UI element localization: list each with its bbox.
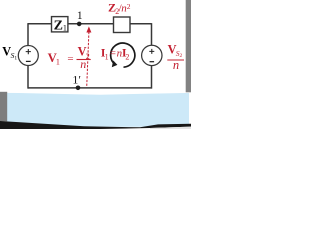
node 1 (dot) bbox=[77, 22, 82, 27]
blue panel band (bottom of figure) bbox=[7, 93, 190, 127]
svg-text:1: 1 bbox=[63, 22, 67, 32]
light sliver bottom-right bbox=[150, 127, 191, 129]
svg-text:n: n bbox=[173, 58, 179, 72]
fraction bar VS2/n bbox=[167, 59, 184, 61]
svg-text:=: = bbox=[110, 47, 116, 59]
left gray page-edge square bbox=[0, 92, 7, 122]
svg-text:Z: Z bbox=[54, 18, 63, 33]
voltage arrow V1 (red, dashed, head up) bbox=[87, 32, 89, 88]
svg-text:1: 1 bbox=[14, 55, 17, 61]
svg-text:1′: 1′ bbox=[72, 72, 81, 86]
impedance Z1 (box) bbox=[52, 17, 68, 32]
svg-text:1: 1 bbox=[77, 10, 83, 22]
impedance Z2/n^2 (box) bbox=[114, 17, 131, 33]
source VS2/n (circle) bbox=[142, 45, 162, 65]
black bottom page edge bbox=[0, 121, 191, 129]
svg-text:1: 1 bbox=[56, 57, 60, 66]
svg-text:2: 2 bbox=[125, 52, 129, 61]
page background bbox=[0, 0, 191, 129]
source VS1 (circle) bbox=[18, 46, 38, 66]
VS1 minus sign bbox=[26, 60, 31, 62]
white gap above blue band (slanted top edge) bbox=[0, 89, 191, 95]
VS1 plus sign bbox=[26, 49, 31, 54]
wire left branch bbox=[27, 23, 29, 89]
VS2 minus sign bbox=[150, 61, 155, 63]
svg-text:=: = bbox=[67, 53, 73, 65]
svg-text:1: 1 bbox=[105, 52, 109, 61]
VS2 plus sign bbox=[149, 49, 154, 54]
node 1' (dot) bbox=[76, 86, 81, 91]
svg-text:n: n bbox=[80, 57, 86, 71]
wire right branch bbox=[151, 23, 153, 89]
svg-text:2: 2 bbox=[127, 2, 131, 11]
loop arrowhead bbox=[112, 60, 118, 67]
svg-text:2: 2 bbox=[180, 53, 183, 59]
right gray page-edge bar bbox=[186, 0, 191, 92]
wire bottom bbox=[28, 87, 152, 89]
wire top bbox=[28, 23, 152, 25]
loop current arrow (mesh current) bbox=[111, 43, 135, 67]
fraction bar V2/n bbox=[77, 59, 91, 61]
